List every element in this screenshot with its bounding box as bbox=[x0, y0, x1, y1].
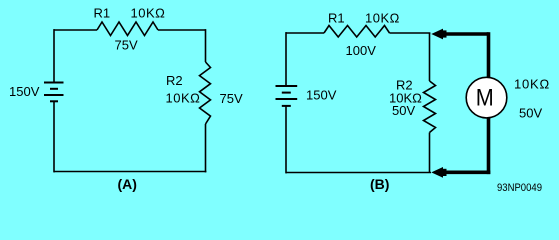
wire: bottom wire (A) bbox=[54, 171, 206, 173]
resistor R2 (B) zigzag bbox=[424, 81, 436, 133]
svg-text:M: M bbox=[476, 84, 494, 111]
svg-text:93NP0049: 93NP0049 bbox=[497, 182, 542, 194]
battery 150V (A) plate 2 short bbox=[50, 88, 58, 90]
svg-text:150V: 150V bbox=[9, 84, 40, 99]
svg-text:R2: R2 bbox=[166, 73, 183, 88]
svg-text:(A): (A) bbox=[118, 176, 137, 192]
arrowhead: current arrow into top node (B) bbox=[431, 29, 443, 40]
svg-text:10KΩ: 10KΩ bbox=[131, 6, 166, 21]
battery 150V (B) plate 2 short bbox=[282, 92, 291, 94]
wire: R2 branch vertical lower (B) bbox=[429, 133, 431, 173]
svg-text:75V: 75V bbox=[220, 91, 243, 106]
svg-text:75V: 75V bbox=[115, 38, 138, 53]
wire: top wire left segment (A) bbox=[54, 29, 97, 31]
wire: left vertical lower segment (B) bbox=[285, 106, 287, 173]
svg-text:10KΩ: 10KΩ bbox=[166, 91, 201, 106]
svg-text:150V: 150V bbox=[306, 88, 337, 103]
wire: top wire right segment (A) bbox=[158, 29, 206, 31]
svg-text:R1: R1 bbox=[94, 6, 111, 21]
svg-text:50V: 50V bbox=[519, 106, 542, 121]
wire: right vertical lower segment (A) bbox=[205, 124, 207, 172]
battery 150V (B) plate 3 long bbox=[276, 98, 298, 100]
wire: thick bottom wire from motor corner (B) bbox=[446, 171, 490, 175]
battery 150V (A) plate 3 long bbox=[44, 94, 64, 96]
svg-text:50V: 50V bbox=[392, 103, 415, 118]
svg-text:(B): (B) bbox=[370, 176, 389, 192]
wire: right vertical upper segment (A) bbox=[205, 29, 207, 62]
wire: thick vertical below motor (B) bbox=[487, 118, 491, 175]
wire: left vertical lower segment (A) bbox=[53, 101, 55, 172]
battery 150V (A) plate 4 short bbox=[50, 100, 58, 102]
svg-text:10KΩ: 10KΩ bbox=[365, 11, 400, 26]
svg-text:100V: 100V bbox=[346, 43, 377, 58]
battery 150V (B) plate 4 short bbox=[282, 105, 291, 107]
wire: top wire left segment (B) bbox=[286, 32, 324, 34]
wire: top wire right segment to node (B) bbox=[390, 32, 431, 34]
motor M circle (B) bbox=[466, 77, 507, 118]
arrowhead: current arrow into bottom node (B) bbox=[431, 167, 443, 178]
wire: thick vertical from top corner to motor (B) bbox=[487, 32, 491, 77]
wire: thick top wire to motor branch (B) bbox=[445, 32, 489, 36]
resistor R1 (A) zigzag bbox=[97, 22, 158, 36]
wire: left vertical upper segment (A) bbox=[53, 29, 55, 82]
resistor R1 (B) zigzag bbox=[324, 26, 390, 38]
battery 150V (B) plate 1 long bbox=[276, 85, 298, 87]
battery 150V (A) plate 1 long bbox=[44, 82, 64, 84]
wire: left vertical upper segment (B) bbox=[285, 32, 287, 86]
resistor R2 (A) zigzag bbox=[200, 62, 211, 124]
wire: R2 branch vertical upper (B) bbox=[429, 33, 431, 81]
wire: bottom wire (B) bbox=[286, 172, 431, 174]
svg-text:R1: R1 bbox=[328, 11, 345, 26]
svg-text:10KΩ: 10KΩ bbox=[514, 77, 550, 92]
